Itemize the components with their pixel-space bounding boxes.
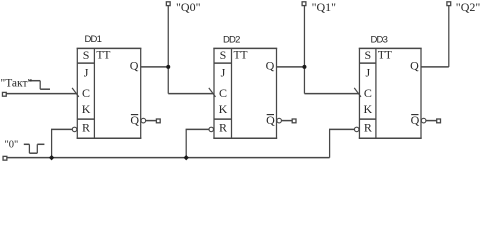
svg-text:"Q1": "Q1" (312, 0, 337, 14)
svg-text:K: K (219, 102, 228, 116)
svg-text:J: J (221, 66, 226, 80)
svg-text:R: R (219, 121, 227, 135)
svg-text:S: S (83, 48, 90, 62)
svg-text:C: C (364, 86, 372, 100)
svg-text:K: K (82, 102, 91, 116)
svg-text:"Q0": "Q0" (176, 0, 201, 14)
svg-text:Q: Q (410, 59, 419, 73)
svg-text:DD1: DD1 (85, 34, 102, 45)
svg-text:C: C (82, 86, 90, 100)
svg-text:R: R (82, 121, 90, 135)
svg-text:TT: TT (234, 50, 248, 62)
svg-text:S: S (220, 48, 227, 62)
svg-text:J: J (84, 66, 89, 80)
svg-text:TT: TT (96, 50, 110, 62)
svg-text:"Q2": "Q2" (456, 0, 481, 14)
svg-text:"Такт": "Такт" (1, 78, 33, 90)
svg-text:DD2: DD2 (223, 35, 240, 46)
svg-text:DD3: DD3 (371, 35, 388, 46)
svg-text:K: K (364, 102, 373, 116)
svg-text:Q: Q (266, 59, 275, 73)
svg-text:R: R (364, 121, 372, 135)
svg-text:"0": "0" (5, 140, 19, 151)
svg-text:S: S (365, 48, 372, 62)
svg-text:TT: TT (378, 50, 392, 62)
svg-text:C: C (219, 86, 227, 100)
svg-text:Q: Q (130, 59, 139, 73)
svg-text:J: J (366, 66, 371, 80)
